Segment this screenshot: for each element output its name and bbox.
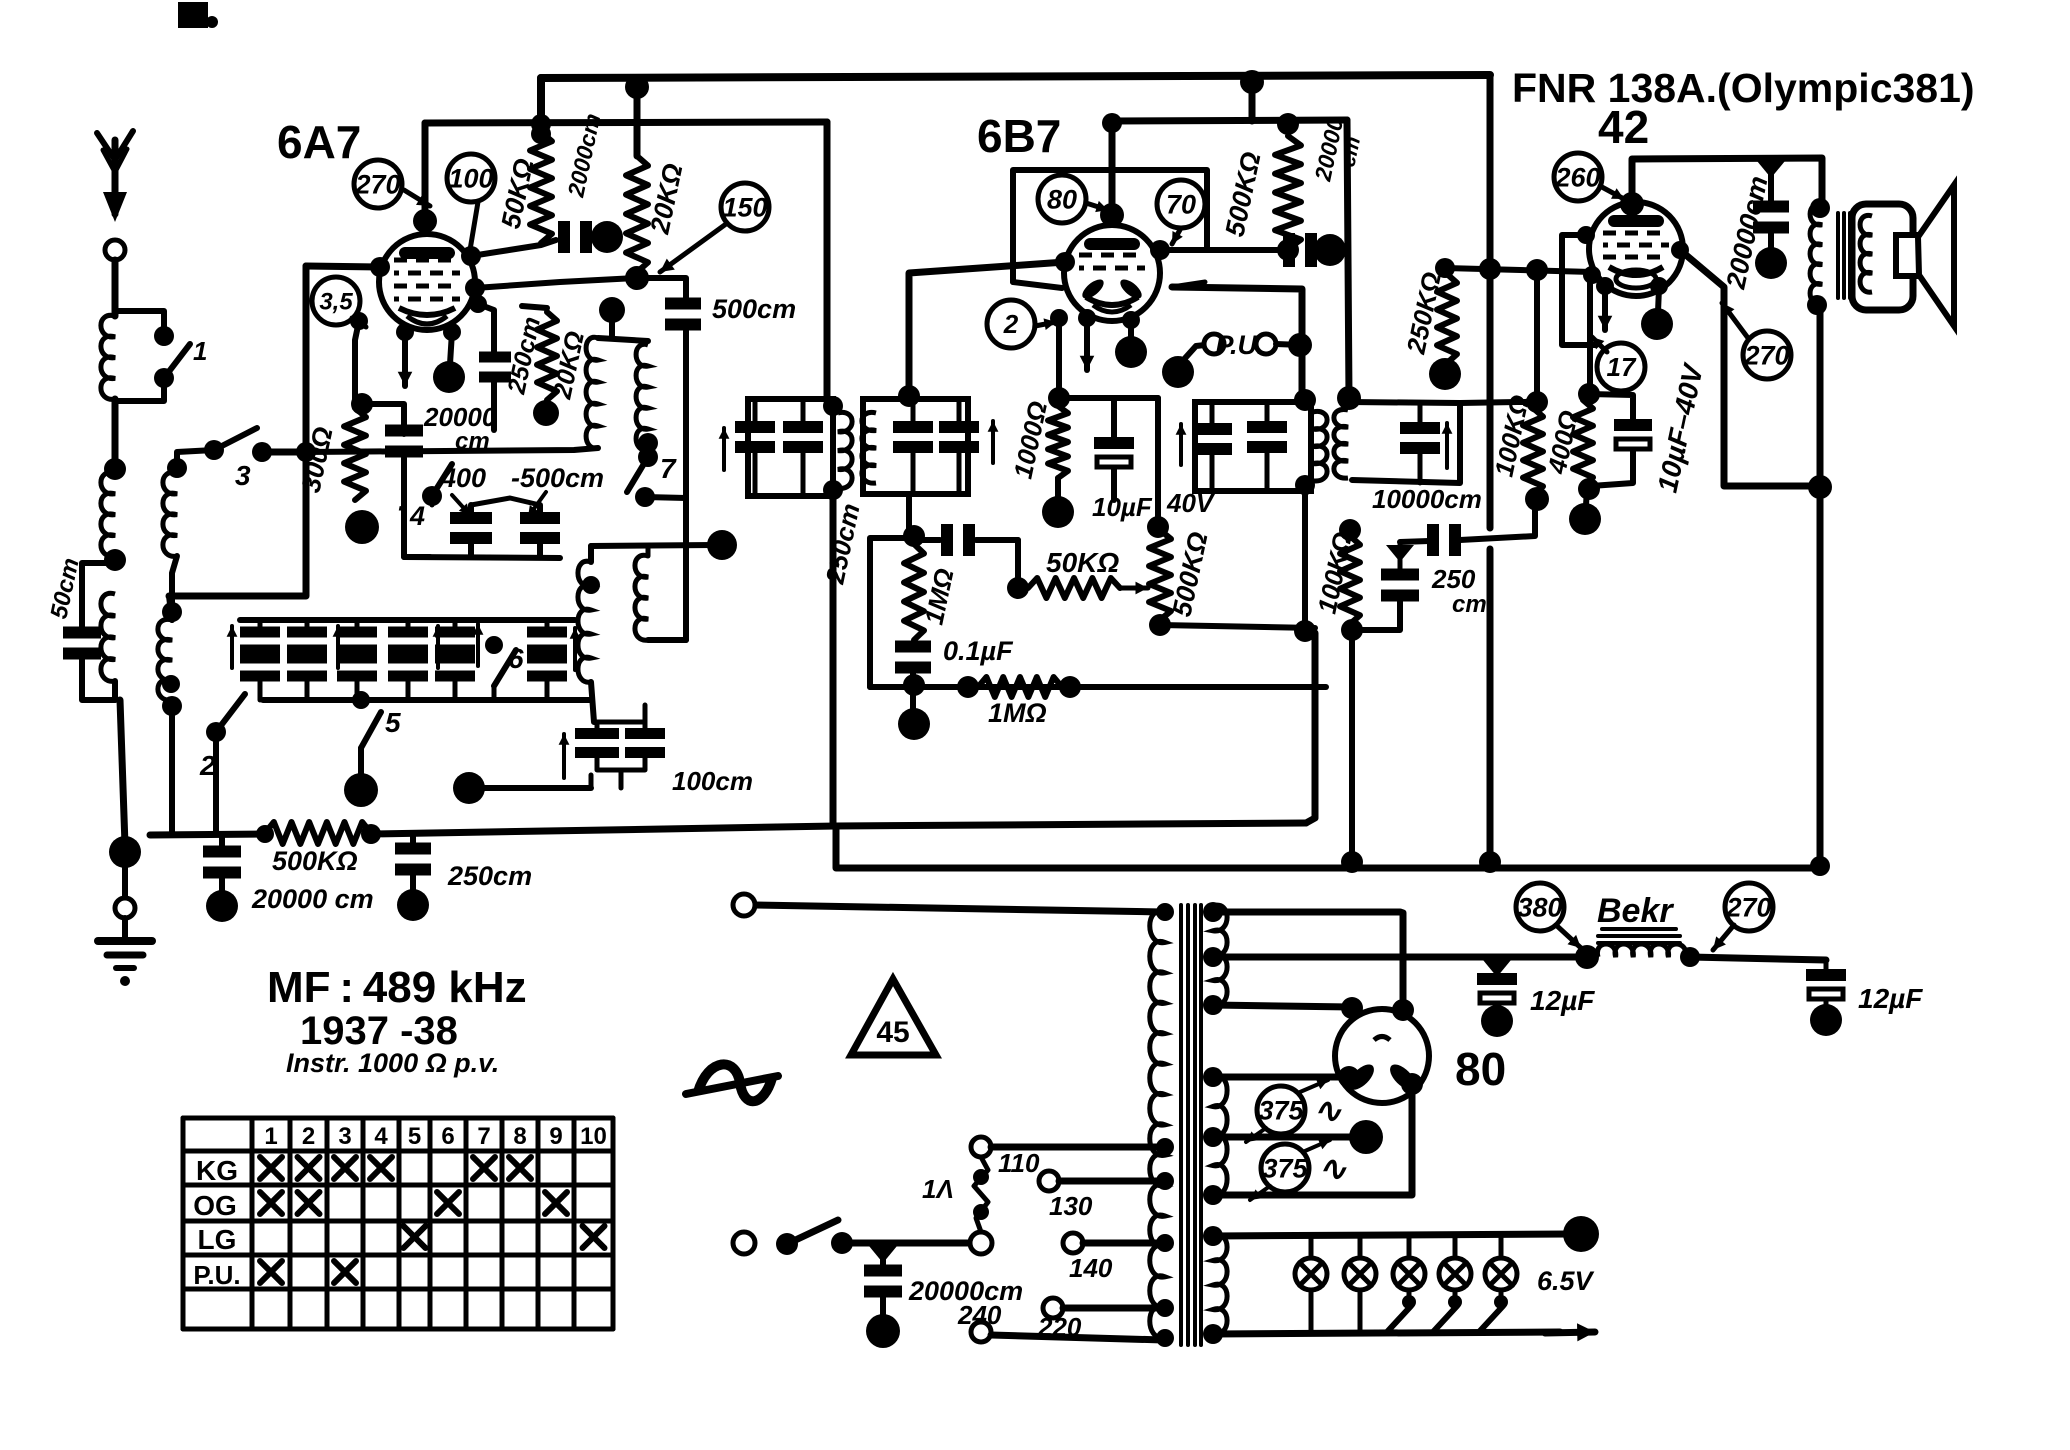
label 20000cm out	[1720, 173, 1773, 292]
wire switch2 to bus	[213, 732, 219, 833]
svg-text:270: 270	[1725, 892, 1771, 922]
wire tap 130	[1059, 1178, 1163, 1185]
coil OT primary	[1807, 198, 1830, 315]
svg-text:6.5V: 6.5V	[1537, 1266, 1595, 1296]
svg-text:MF : 489 kHz: MF : 489 kHz	[267, 963, 527, 1012]
wire IF2 p arrow	[719, 428, 730, 470]
wire pot bottom out	[1160, 625, 1315, 628]
capacitor 12uF right	[1806, 960, 1846, 1008]
svg-text:10µF: 10µF	[1092, 492, 1153, 522]
wire 500cm to osc node	[683, 328, 689, 640]
wire fil tap3 to 80	[1213, 1073, 1423, 1195]
wire 6B7 bias rail	[1050, 309, 1068, 398]
wire HT vertical right	[1487, 75, 1494, 528]
node bus junction x637	[625, 75, 649, 99]
label 100K avc	[1312, 529, 1358, 616]
switch 4	[396, 464, 452, 531]
wire switch1 branch	[115, 311, 164, 332]
capacitor 12uF left	[1477, 958, 1517, 1012]
label 250cm ag	[447, 861, 532, 891]
node det bottom	[903, 674, 925, 696]
coil antenna B	[101, 472, 115, 556]
wire plate to 50K/cap	[461, 240, 556, 266]
coil IF3 primary	[1294, 389, 1327, 495]
svg-text:4: 4	[374, 1123, 388, 1150]
wire arrow 80	[1086, 201, 1108, 212]
resistor 300ohm	[344, 393, 373, 500]
switch mains	[776, 1220, 853, 1255]
resistor 50K plate load	[530, 124, 552, 243]
resistor 100K avc	[1339, 519, 1363, 641]
label 12uF right	[1858, 983, 1923, 1014]
wire mains to fuse	[852, 1240, 972, 1247]
capacitor tuning gang g6	[527, 620, 567, 700]
label 40V	[1166, 488, 1216, 518]
wire 42 grid rail	[1445, 258, 1592, 281]
terminal fuse bottom	[970, 1232, 992, 1254]
terminal antenna	[105, 240, 125, 260]
svg-text:45: 45	[876, 1016, 909, 1049]
wire arrow 150 to node	[660, 224, 726, 272]
wire padder top link	[471, 498, 540, 505]
tube 42 V3	[1589, 202, 1683, 296]
svg-text:250: 250	[1431, 564, 1476, 594]
coil IF2 primary	[823, 396, 852, 500]
svg-text:80: 80	[1455, 1043, 1506, 1095]
coil PT primary	[1150, 911, 1165, 1338]
label 300ohm	[296, 424, 339, 495]
circled 100 callout	[447, 154, 495, 202]
coil PT secondary HV	[1213, 905, 1227, 1005]
node bus junction x1252	[1240, 70, 1264, 94]
resistor 500K avc	[256, 822, 371, 844]
svg-text:110: 110	[998, 1148, 1040, 1178]
node 300ohm bottom blob	[345, 510, 379, 544]
node 12uF right blob	[1810, 1004, 1842, 1036]
IF2 primary box	[748, 399, 833, 496]
capacitor IF2 p2	[783, 399, 823, 496]
capacitor tuning gang g5	[435, 620, 475, 700]
wire 6A7 plate feed line y122	[425, 122, 827, 123]
svg-text:500cm: 500cm	[712, 294, 796, 324]
resistor 500K pot	[1149, 530, 1171, 620]
wire avc cap link	[1352, 601, 1400, 630]
wire to ground	[115, 681, 125, 845]
wire grid1 pin to 300ohm	[350, 312, 368, 404]
svg-text:6: 6	[508, 643, 524, 674]
wire 42 cath blob lead	[1650, 277, 1668, 312]
capacitor 20000cm ag	[203, 834, 241, 896]
label 240	[957, 1300, 1002, 1330]
svg-text:12µF: 12µF	[1858, 983, 1923, 1014]
switch 3	[204, 428, 272, 491]
node switch5 blob	[344, 773, 378, 807]
node 400 bottom	[1578, 478, 1600, 500]
label 6B7	[977, 110, 1061, 162]
label 10uF-40V	[1652, 360, 1710, 496]
wire grid pin to left rail	[306, 257, 390, 277]
wire tap 220	[1063, 1305, 1163, 1312]
node 20000 out blob	[1755, 247, 1787, 279]
wire cathode pin right	[443, 323, 461, 364]
wire 6A7 top cap lead	[422, 123, 429, 221]
node PT sec taps	[1203, 902, 1223, 1344]
resistor 50K det	[1028, 578, 1120, 598]
wire 6B7 cath arrow	[1078, 309, 1096, 370]
switch 6	[485, 636, 524, 700]
wire IF2 s arrow	[988, 421, 999, 463]
svg-text:10000cm: 10000cm	[1372, 484, 1482, 514]
node 20K bottom	[625, 266, 649, 290]
capacitor 250cm osc	[479, 352, 511, 383]
svg-text:80: 80	[1047, 184, 1077, 214]
node 100cm blob	[453, 772, 485, 804]
label 220	[1037, 1312, 1082, 1342]
resistor 1M horiz	[957, 676, 1081, 698]
capacitor 500cm coupling	[665, 298, 701, 331]
wire fil tap1 to 80	[1213, 1066, 1360, 1088]
wire PU to plate drop	[1276, 333, 1312, 357]
terminal 140	[1063, 1233, 1083, 1253]
svg-text:100cm: 100cm	[672, 766, 753, 796]
node choke in	[1575, 945, 1599, 969]
wire OT primary bottom drop	[1817, 305, 1824, 868]
label tilde a	[1313, 1092, 1342, 1130]
svg-text:3: 3	[235, 460, 251, 491]
wire W1 det out	[1400, 503, 1535, 542]
wire 100K avc to bus	[1349, 630, 1355, 864]
node 6A7 top cap	[413, 209, 437, 233]
wire 6B7 plate feed y121	[1102, 113, 1347, 133]
wire tap 110	[991, 1144, 1163, 1151]
wire lamp bus bottom	[1213, 1332, 1560, 1334]
svg-text:0.1µF: 0.1µF	[943, 636, 1014, 666]
table row labels	[193, 1155, 240, 1290]
wire pot feed	[1155, 398, 1161, 523]
wire HV mid to choke	[1213, 954, 1581, 961]
svg-text:17: 17	[1607, 352, 1637, 382]
wire gang arrows	[227, 624, 581, 670]
circled 375 a	[1257, 1086, 1305, 1134]
svg-text:10: 10	[580, 1123, 607, 1150]
node bus bump HT	[1479, 851, 1501, 873]
svg-text:-500cm: -500cm	[511, 463, 604, 493]
wire choke to caps	[1690, 957, 1826, 960]
wire top B+ bus	[541, 75, 1490, 78]
svg-text:KG: KG	[196, 1155, 238, 1186]
node 1000 bottom blob	[1042, 478, 1074, 528]
wire 6B7 box	[1013, 170, 1207, 288]
svg-text:42: 42	[1598, 101, 1649, 153]
svg-text:cm: cm	[1452, 591, 1487, 618]
wire 10uF40 top	[1589, 394, 1633, 419]
circled 270 out callout	[1743, 331, 1791, 379]
node junction x541 y122	[531, 114, 551, 134]
wire osc pickup bottom	[591, 682, 594, 722]
terminal 240	[971, 1322, 991, 1342]
speaker horn	[1918, 185, 1954, 326]
wire HV tap3 to 80	[1213, 1005, 1352, 1007]
node pot bottom	[1149, 614, 1171, 636]
capacitor tuning gang g4	[388, 620, 428, 700]
node det blob	[898, 708, 930, 740]
node 20000 blob	[206, 890, 238, 922]
circled 80 callout	[1038, 175, 1086, 223]
svg-text:375: 375	[1262, 1153, 1308, 1183]
fuse 1A	[973, 1157, 989, 1232]
label 500K 6B7	[1220, 149, 1267, 239]
terminal fuse top 110	[971, 1137, 991, 1157]
wire 42 grid box	[1562, 226, 1596, 345]
svg-text:1: 1	[193, 336, 207, 366]
wire HV tap1 to 80	[1213, 912, 1403, 1008]
wire 50K arrow	[1120, 582, 1148, 595]
circled 375 b	[1261, 1144, 1309, 1192]
label 6.5V	[1537, 1266, 1595, 1296]
label 10uF	[1092, 492, 1153, 522]
coil osc primary	[586, 337, 598, 448]
transformer OT core	[1838, 213, 1850, 298]
wire IF3 s arrow	[1442, 423, 1453, 468]
svg-text:3: 3	[338, 1123, 351, 1150]
wire arrow 270 out	[1722, 303, 1748, 338]
label 20000cm bias	[423, 402, 497, 455]
wire ground lead	[122, 862, 128, 900]
svg-text:500KΩ: 500KΩ	[272, 846, 358, 876]
node cathode blob	[433, 361, 465, 393]
coil antenna primary	[101, 315, 115, 399]
wire lamp bus arrow	[1545, 1323, 1595, 1341]
wire tickler bottom	[648, 637, 686, 643]
capacitor 250cm W1	[1427, 524, 1461, 556]
circled 380 callout	[1516, 883, 1564, 931]
wire arrow 270 to tube top	[404, 190, 430, 206]
ground	[98, 918, 152, 986]
svg-text:6: 6	[441, 1123, 454, 1150]
label 80	[1455, 1043, 1506, 1095]
node plate junction	[1808, 475, 1832, 499]
label Instr	[286, 1048, 499, 1078]
node 12uF left blob	[1481, 1005, 1513, 1037]
label 400ohm	[1541, 408, 1584, 478]
node 20000 6B7 blob	[1314, 234, 1346, 266]
node 400 blob	[1569, 489, 1601, 535]
svg-text:140: 140	[1069, 1253, 1113, 1283]
wire 6B7 top lead	[1100, 121, 1124, 227]
circled 150 callout	[721, 183, 769, 231]
label 1000ohm	[1008, 399, 1054, 482]
label 1A	[922, 1174, 954, 1204]
lamp pilot 2	[1344, 1236, 1376, 1333]
node 20K osc bottom	[533, 400, 559, 426]
wire tap 240	[991, 1335, 1163, 1340]
label 100K 42	[1489, 392, 1535, 479]
label 500K avc	[272, 846, 358, 876]
capacitor IF2 s2	[939, 399, 979, 494]
wire arrow 500	[528, 492, 546, 517]
IF3 primary box	[1195, 402, 1311, 491]
node bus bump 100K	[1341, 851, 1363, 873]
wire IF3 sec box	[1349, 402, 1460, 483]
label 2000cm	[562, 111, 605, 200]
wire arrow 270 b	[1713, 925, 1734, 950]
svg-text:100: 100	[448, 163, 493, 193]
wire antenna lead	[112, 260, 119, 316]
label 250K	[1400, 269, 1447, 357]
transformer PT core	[1181, 905, 1201, 1345]
capacitor IF3 p2	[1247, 402, 1287, 491]
svg-text:3,5: 3,5	[319, 288, 353, 315]
label 20K osc	[546, 328, 590, 402]
wire 20K bottom to 500cm cap	[637, 278, 686, 300]
capacitor 250cm ag	[395, 835, 431, 896]
wire bus mid	[371, 823, 1306, 834]
label 6A7	[277, 116, 361, 168]
wire 42 top lead	[1620, 160, 1644, 216]
wire arrow 260	[1600, 186, 1624, 199]
label 20000 cm ag	[251, 884, 374, 914]
svg-text:OG: OG	[193, 1190, 237, 1221]
wire 400 feed	[1583, 266, 1601, 392]
wire IF3 primary bottom drop	[1294, 485, 1316, 642]
wire bus drop x1252	[1249, 82, 1256, 121]
circled 3,5 callout	[312, 277, 360, 325]
svg-text:260: 260	[1554, 162, 1600, 192]
switch 2	[162, 675, 245, 781]
capacitor tuning gang g2	[287, 620, 327, 700]
wire 300ohm top to cap 20000	[362, 404, 404, 434]
wire IF2 primary bottom drop	[830, 496, 837, 823]
table wave-band grid	[183, 1118, 613, 1329]
node 6B7 cath blob	[1115, 336, 1147, 368]
wire 100cm arrow	[559, 734, 570, 778]
label 250cm osc	[502, 314, 546, 397]
capacitor padder A	[450, 512, 492, 544]
svg-text:4: 4	[409, 501, 425, 531]
node Bplus blob	[1349, 1120, 1383, 1154]
terminal PU left	[1204, 334, 1224, 354]
node 42 cath blob	[1641, 308, 1673, 340]
label 50cm	[45, 556, 84, 622]
label 0.1uF	[943, 636, 1014, 666]
terminal 130	[1039, 1171, 1059, 1191]
choke Bekr	[1597, 929, 1686, 957]
svg-text:Instr. 1000 Ω p.v.: Instr. 1000 Ω p.v.	[286, 1048, 499, 1078]
svg-text:130: 130	[1049, 1191, 1093, 1221]
capacitor IF2 p1	[735, 399, 775, 496]
node 250cm blob	[397, 889, 429, 921]
resistor 1000ohm	[1048, 406, 1068, 478]
wire HT vertical right lower	[1487, 549, 1494, 864]
wire pickup lead	[1178, 345, 1205, 366]
label 20000cm 6B7	[1309, 115, 1365, 184]
tube 6B7 V2	[1064, 225, 1160, 321]
wire grid2 to cap	[1150, 240, 1282, 260]
label 110	[998, 1148, 1040, 1178]
wire main ground bus	[150, 834, 265, 835]
capacitor 0.1uF	[895, 641, 931, 713]
capacitor 10uF electrolytic	[1094, 398, 1134, 500]
coil IF2 secondary	[862, 412, 876, 483]
triangle 45	[851, 979, 936, 1055]
label 250cm drop	[819, 501, 865, 587]
capacitor 250cm det	[914, 524, 1018, 556]
resistor 250K	[1435, 258, 1457, 363]
wire tap 140	[1083, 1240, 1163, 1247]
svg-text:400: 400	[440, 463, 486, 493]
node 250K blob	[1429, 358, 1461, 390]
wire 100cm link	[480, 775, 591, 788]
resistor 20K osc	[522, 306, 557, 400]
terminal mains L	[733, 1232, 755, 1254]
coil OT secondary	[1860, 215, 1872, 292]
wire osc grid cap lead	[469, 295, 494, 356]
switch 1	[154, 326, 207, 388]
node avc junction	[361, 824, 381, 844]
node lamp bus end blob	[1563, 1216, 1599, 1252]
circled 260 callout	[1554, 153, 1602, 201]
svg-text:7: 7	[660, 453, 677, 484]
capacitor tuning gang g3	[337, 620, 377, 700]
resistor 1M vert	[904, 544, 924, 640]
label 20K first	[644, 161, 688, 237]
wire IF2 primary feed	[824, 122, 831, 399]
wire screen pin to 20K bottom	[465, 278, 637, 298]
speaker voice coil	[1896, 235, 1919, 276]
coil IF3 secondary	[1334, 409, 1348, 478]
svg-text:6A7: 6A7	[277, 116, 361, 168]
lamp pilot 1	[1295, 1236, 1327, 1333]
lamp pilot 5	[1479, 1236, 1517, 1332]
wire 42 top to OT	[1632, 158, 1822, 205]
svg-text:1: 1	[264, 1123, 277, 1150]
label -500cm	[511, 463, 604, 493]
resistor 100K 42	[1523, 408, 1543, 495]
wire mains top to primary	[754, 905, 1163, 912]
svg-text:∿: ∿	[1318, 1150, 1347, 1188]
coil osc tickler	[635, 555, 648, 640]
svg-text:20000 cm: 20000 cm	[251, 884, 374, 914]
wire det cap corner	[1007, 540, 1029, 599]
label tilde b	[1318, 1150, 1347, 1188]
node coilB bottom	[104, 549, 126, 571]
label 500cm	[712, 294, 796, 324]
wire padder rail	[404, 496, 560, 558]
coil PT secondary 5V	[1213, 1076, 1227, 1195]
tube 80 V4	[1335, 1009, 1429, 1103]
wire 10uF40 bottom	[1591, 450, 1633, 486]
node bus corner right	[1810, 856, 1830, 876]
wire 375b arrows	[1250, 1139, 1330, 1200]
node osc top blob	[599, 297, 625, 338]
capacitor 20000cm mains	[864, 1246, 902, 1320]
svg-text:375: 375	[1258, 1095, 1304, 1125]
svg-text:50KΩ: 50KΩ	[1046, 547, 1119, 578]
svg-text:7: 7	[477, 1123, 490, 1150]
wire arrow 17	[1592, 337, 1607, 352]
capacitor 10uF-40V	[1614, 419, 1652, 449]
label 130	[1049, 1191, 1093, 1221]
label 500K pot	[1167, 529, 1214, 619]
label 100cm	[672, 766, 753, 796]
capacitor IF3 p1	[1192, 402, 1232, 491]
node 2000cm end blob	[591, 221, 623, 253]
node 80 top pins	[1341, 997, 1414, 1021]
node pot top	[1147, 516, 1169, 538]
wire coilE bottom to bus	[162, 696, 182, 833]
circled 70 callout	[1157, 180, 1205, 228]
svg-text:1Λ: 1Λ	[922, 1174, 954, 1204]
